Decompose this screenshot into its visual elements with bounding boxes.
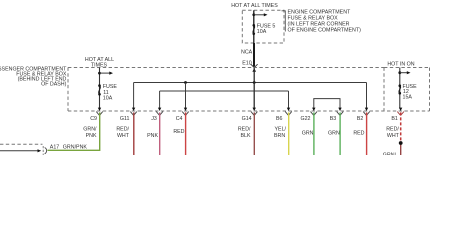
connector C4 xyxy=(184,108,187,111)
svg-text:RED: RED xyxy=(353,131,364,137)
connector B2 xyxy=(365,108,368,111)
wire PNK (J3) xyxy=(159,112,161,155)
dashed box: right fuse box (hot in on) xyxy=(384,67,430,69)
svg-text:A17: A17 xyxy=(50,145,59,151)
connector B3 xyxy=(338,108,341,111)
junction dot at C4 drop xyxy=(184,81,187,84)
svg-text:G11: G11 xyxy=(120,116,130,122)
svg-text:GRN/PNK: GRN/PNK xyxy=(63,145,88,151)
svg-text:10A: 10A xyxy=(103,96,113,102)
svg-text:GRN/: GRN/ xyxy=(83,127,97,133)
svg-text:PNK: PNK xyxy=(147,133,158,139)
junction dot on fuse 5 feed xyxy=(252,13,255,16)
connector G11 xyxy=(132,108,135,111)
svg-text:HOT IN ON: HOT IN ON xyxy=(387,62,414,68)
svg-text:E10: E10 xyxy=(242,61,251,67)
wire: fuse 11 feed vertical xyxy=(99,68,101,109)
svg-text:BLK: BLK xyxy=(240,133,250,139)
svg-text:C9: C9 xyxy=(90,116,97,122)
svg-text:10A: 10A xyxy=(257,29,267,35)
wire: branch arrow right inside engine box xyxy=(254,14,264,16)
wire: branch arrow right inside passenger box xyxy=(100,72,110,74)
svg-text:BRN: BRN xyxy=(274,133,285,139)
wire drop to C4 xyxy=(185,83,187,109)
svg-text:GRN: GRN xyxy=(328,131,340,137)
wire drop to B2 xyxy=(366,83,368,109)
svg-text:GRN/: GRN/ xyxy=(383,152,397,155)
svg-text:RED/: RED/ xyxy=(238,127,251,133)
junction dot fuse 11 feed xyxy=(98,72,101,75)
wire YEL/BRN (B6) xyxy=(288,112,290,155)
connector B6 xyxy=(287,108,290,111)
wire RED (C4) xyxy=(185,112,187,155)
svg-text:G14: G14 xyxy=(242,116,252,122)
bracket bus C (y=98.6) G22 to B3 xyxy=(314,99,340,108)
svg-text:NCA: NCA xyxy=(241,49,253,55)
connector G14 xyxy=(253,108,256,111)
wire: fuse 12 feed vertical xyxy=(399,68,401,109)
svg-text:J3: J3 xyxy=(151,116,157,122)
connector C9 (arrow down into socket) xyxy=(98,108,101,111)
splice dot on B1 wire xyxy=(399,141,403,145)
svg-text:B3: B3 xyxy=(330,116,337,122)
bus A (y=82.5) from G11 to B2 xyxy=(134,82,367,84)
fuse F12 symbol xyxy=(399,84,402,87)
fuse F5 symbol xyxy=(253,24,256,27)
wire GRN (G22) xyxy=(313,112,315,155)
wire drop to J3 xyxy=(159,91,161,108)
dashed boundary: left box left edge xyxy=(67,68,69,112)
wire drop to G11 xyxy=(133,83,135,109)
bus B (y=90.8) from J3 to B6 xyxy=(160,90,289,92)
connector J3 xyxy=(158,108,161,111)
dashed stub at bottom left xyxy=(0,143,43,145)
junction dot fuse 12 feed xyxy=(398,71,401,74)
svg-text:WHT: WHT xyxy=(387,133,400,139)
bracket for engine box note xyxy=(282,11,286,32)
wire RED (B2) xyxy=(366,112,368,155)
svg-text:RED/: RED/ xyxy=(116,127,129,133)
connector E10 symbol (arrow up into socket) xyxy=(251,64,258,67)
wire GRN (B3) xyxy=(339,112,341,155)
connector G22 xyxy=(312,108,315,111)
wire into A17 (black, from left edge) xyxy=(0,150,38,152)
junction dot at E10 vertical xyxy=(253,81,256,84)
fuse F11 symbol xyxy=(98,84,101,87)
svg-text:B6: B6 xyxy=(276,116,283,122)
svg-text:15A: 15A xyxy=(403,95,413,101)
wire drop E10 to G14 xyxy=(253,68,255,109)
svg-text:PNK: PNK xyxy=(86,133,97,139)
wire RED/BLK (G14) xyxy=(253,112,255,155)
wire GRN/PNK from C9 down and left to A17 xyxy=(48,112,100,150)
svg-text:HOT AT ALL TIMES: HOT AT ALL TIMES xyxy=(231,3,278,9)
svg-text:YEL/: YEL/ xyxy=(275,127,287,133)
svg-text:OF DASH): OF DASH) xyxy=(41,82,67,88)
connector B1 xyxy=(399,108,402,111)
wire: E10 drop from engine box (thick) xyxy=(253,43,255,67)
wire drop to B6 xyxy=(288,91,290,108)
dashed boundary: top long dashed line xyxy=(68,67,384,69)
wire: fuse 5 feed vertical (black) xyxy=(253,10,255,43)
dashed box: engine compartment fuse & relay box xyxy=(242,10,284,43)
svg-text:G22: G22 xyxy=(300,116,310,122)
svg-text:RED: RED xyxy=(173,129,184,135)
wire RED (G11) xyxy=(133,112,135,155)
wire: branch arrow right inside right box xyxy=(400,72,407,74)
svg-text:B1: B1 xyxy=(391,116,398,122)
connector A17 symbol xyxy=(42,146,44,155)
dashed boundary: bottom long dashed line xyxy=(68,110,430,112)
wire RED/WHT dashed (B1) xyxy=(400,112,402,143)
svg-text:GRN: GRN xyxy=(302,131,314,137)
svg-text:WHT: WHT xyxy=(117,133,130,139)
svg-text:B2: B2 xyxy=(357,116,364,122)
svg-text:OF ENGINE COMPARTMENT): OF ENGINE COMPARTMENT) xyxy=(288,28,362,34)
svg-text:C4: C4 xyxy=(176,116,183,122)
svg-text:RED/: RED/ xyxy=(386,127,399,133)
